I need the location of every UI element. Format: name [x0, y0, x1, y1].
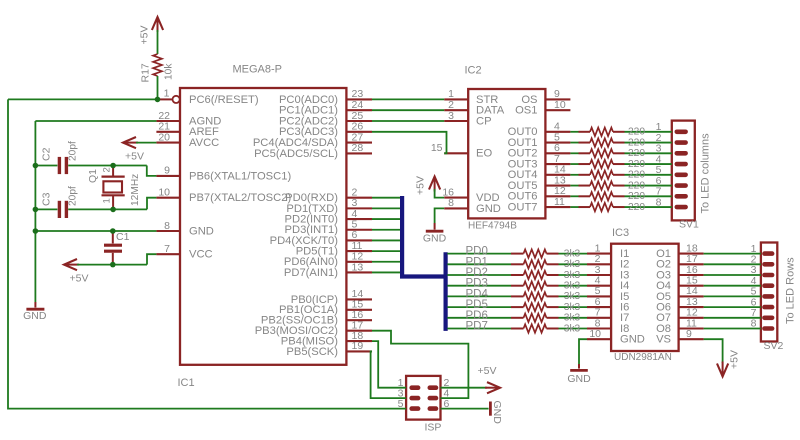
svg-text:3k3: 3k3 — [564, 270, 581, 281]
svg-text:220: 220 — [628, 159, 645, 170]
svg-text:+5V: +5V — [478, 365, 497, 377]
svg-text:3k3: 3k3 — [564, 302, 581, 313]
svg-text:SV2: SV2 — [764, 340, 784, 352]
svg-text:3k3: 3k3 — [564, 259, 581, 270]
svg-text:13: 13 — [352, 261, 364, 273]
svg-text:+5V: +5V — [729, 350, 741, 369]
svg-text:15: 15 — [431, 142, 443, 154]
svg-text:3k3: 3k3 — [564, 248, 581, 259]
svg-text:220: 220 — [628, 180, 645, 191]
svg-text:10k: 10k — [164, 63, 175, 80]
svg-text:+5V: +5V — [125, 151, 144, 163]
svg-text:To LED columns: To LED columns — [700, 133, 712, 214]
svg-text:20pf: 20pf — [68, 141, 79, 161]
svg-text:GND: GND — [423, 233, 447, 245]
svg-text:IC2: IC2 — [465, 65, 482, 77]
svg-text:To LED Rows: To LED Rows — [785, 257, 797, 324]
svg-text:220: 220 — [628, 127, 645, 138]
svg-text:9: 9 — [686, 328, 692, 340]
svg-text:IC1: IC1 — [178, 377, 195, 389]
svg-text:10: 10 — [589, 328, 601, 340]
svg-text:GND: GND — [620, 334, 645, 346]
svg-text:MEGA8-P: MEGA8-P — [233, 64, 283, 76]
svg-text:9: 9 — [164, 165, 170, 177]
svg-text:8: 8 — [656, 196, 662, 208]
svg-text:20: 20 — [158, 131, 170, 143]
svg-text:CP: CP — [476, 115, 492, 127]
svg-text:C2: C2 — [41, 147, 53, 161]
svg-text:3: 3 — [448, 110, 454, 122]
svg-text:GND: GND — [476, 203, 501, 215]
svg-text:PC6(/RESET): PC6(/RESET) — [189, 94, 259, 106]
svg-text:5: 5 — [398, 398, 404, 410]
svg-text:+5V: +5V — [415, 176, 427, 195]
svg-text:OS1: OS1 — [515, 105, 537, 117]
svg-text:EO: EO — [476, 148, 492, 160]
svg-text:+5V: +5V — [70, 273, 89, 285]
svg-text:11: 11 — [554, 196, 565, 208]
svg-text:3k3: 3k3 — [564, 281, 581, 292]
svg-text:8: 8 — [751, 318, 757, 330]
svg-text:2: 2 — [102, 167, 113, 172]
svg-text:1: 1 — [164, 88, 170, 100]
svg-text:8: 8 — [164, 220, 170, 232]
svg-text:PB5(SCK): PB5(SCK) — [286, 346, 338, 358]
svg-text:C1: C1 — [116, 231, 130, 243]
svg-text:PB7(XTAL2/TOSC2): PB7(XTAL2/TOSC2) — [189, 192, 291, 204]
svg-text:+5V: +5V — [139, 26, 151, 45]
svg-text:19: 19 — [352, 340, 364, 352]
svg-text:HEF4794B: HEF4794B — [468, 221, 517, 232]
svg-text:IC3: IC3 — [612, 227, 629, 239]
svg-text:VS: VS — [656, 334, 671, 346]
svg-text:8: 8 — [448, 197, 454, 209]
svg-text:28: 28 — [352, 142, 364, 154]
svg-text:ISP: ISP — [425, 422, 442, 434]
svg-text:GND: GND — [23, 310, 47, 322]
svg-text:10: 10 — [554, 99, 566, 111]
svg-text:UDN2981AN: UDN2981AN — [614, 352, 672, 363]
svg-text:C3: C3 — [41, 192, 53, 206]
svg-text:GND: GND — [189, 225, 214, 237]
svg-text:PC5(ADC5/SCL): PC5(ADC5/SCL) — [254, 148, 338, 160]
svg-text:12MHz: 12MHz — [130, 174, 141, 206]
svg-text:220: 220 — [628, 191, 645, 202]
svg-text:220: 220 — [628, 137, 645, 148]
svg-text:20pf: 20pf — [68, 186, 79, 206]
svg-text:GND: GND — [491, 401, 503, 425]
svg-text:3k3: 3k3 — [564, 291, 581, 302]
svg-text:6: 6 — [444, 398, 450, 410]
svg-text:7: 7 — [164, 243, 170, 255]
svg-text:1: 1 — [102, 198, 113, 203]
svg-text:OUT7: OUT7 — [508, 201, 538, 213]
svg-text:220: 220 — [628, 170, 645, 181]
svg-text:VCC: VCC — [189, 249, 213, 261]
svg-text:SV1: SV1 — [679, 219, 699, 231]
svg-text:PB6(XTAL1/TOSC1): PB6(XTAL1/TOSC1) — [189, 170, 291, 182]
svg-text:3k3: 3k3 — [564, 313, 581, 324]
svg-text:220: 220 — [628, 202, 645, 213]
svg-text:Q1: Q1 — [87, 169, 99, 183]
svg-text:10: 10 — [158, 187, 170, 199]
svg-text:PD7: PD7 — [466, 321, 488, 333]
svg-text:220: 220 — [628, 148, 645, 159]
svg-text:R17: R17 — [140, 63, 152, 82]
svg-text:PD7(AIN1): PD7(AIN1) — [284, 267, 338, 279]
svg-text:3k3: 3k3 — [564, 323, 581, 334]
svg-text:GND: GND — [567, 373, 591, 385]
svg-text:AVCC: AVCC — [189, 137, 219, 149]
